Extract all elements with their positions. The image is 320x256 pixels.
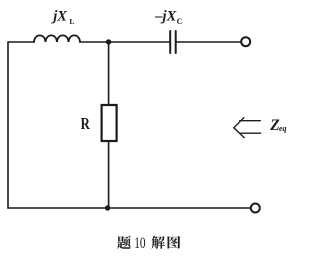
svg-text:–jX: –jX — [154, 9, 176, 25]
svg-text:eq: eq — [279, 124, 287, 133]
svg-text:R: R — [81, 114, 91, 133]
svg-text:10: 10 — [134, 235, 145, 252]
svg-text:C: C — [177, 17, 183, 26]
svg-text:jX: jX — [51, 9, 67, 25]
svg-text:L: L — [69, 17, 74, 26]
